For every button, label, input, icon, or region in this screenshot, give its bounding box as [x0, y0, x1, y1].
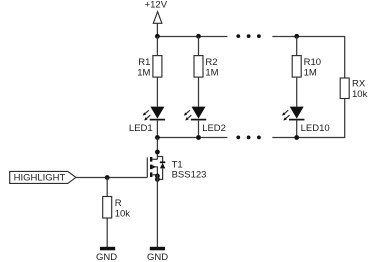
junction highlight node — [105, 175, 110, 180]
junction top rail branch 1 — [155, 34, 160, 39]
wire +12V arrow to top rail — [156, 23, 158, 36]
svg-text:LED10: LED10 — [301, 123, 330, 134]
label RX 10k — [352, 78, 368, 100]
wire top rail right segment — [272, 37, 344, 79]
svg-text:+12V: +12V — [145, 0, 168, 10]
resistor R1 — [153, 56, 162, 78]
svg-text:LED2: LED2 — [202, 123, 226, 134]
wire R to ground — [106, 218, 108, 247]
wire LED10 to bottom rail — [296, 120, 298, 138]
ellipsis bottom rail — [236, 136, 260, 140]
svg-text:RX: RX — [352, 78, 366, 89]
junction bottom rail branch 1 — [155, 135, 160, 140]
wire transistor source to ground — [156, 175, 158, 247]
wire RX to bottom rail — [297, 99, 345, 138]
label R 10k — [115, 198, 131, 219]
wire top rail left segment — [157, 36, 227, 38]
svg-text:GND: GND — [96, 252, 117, 262]
label R2 1M — [205, 57, 218, 78]
wire LED1 to bottom rail — [156, 120, 158, 138]
junction top rail branch 2 — [196, 34, 201, 39]
ground GND right — [147, 247, 168, 262]
resistor RX — [340, 78, 349, 99]
wire R10 to LED10 — [296, 77, 298, 107]
wire highlight node to R — [106, 178, 108, 197]
svg-text:LED1: LED1 — [129, 123, 153, 134]
label T1 BSS123 — [172, 160, 207, 181]
svg-text:1M: 1M — [137, 67, 150, 78]
wire top rail to R1 — [156, 37, 158, 56]
svg-text:R: R — [115, 198, 122, 209]
wire top rail to R2 — [198, 37, 200, 56]
wire bottom rail to transistor drain — [156, 138, 158, 160]
LED LED2 — [184, 107, 206, 121]
wire R2 to LED2 — [198, 77, 200, 107]
svg-text:BSS123: BSS123 — [172, 169, 207, 180]
svg-text:1M: 1M — [205, 67, 218, 78]
ground GND left — [96, 247, 117, 262]
junction source node — [155, 174, 160, 179]
transistor T1 BSS123 n-channel mosfet — [147, 157, 157, 178]
body diode of T1 — [157, 157, 165, 180]
wire LED2 to bottom rail — [198, 120, 200, 138]
resistor R2 — [194, 56, 203, 78]
ellipsis top rail — [236, 34, 260, 38]
resistor R — [103, 197, 112, 219]
junction bottom rail branch 2 — [196, 135, 201, 140]
svg-text:GND: GND — [147, 252, 168, 262]
wire top rail to R10 — [296, 37, 298, 56]
LED LED1 — [143, 107, 165, 121]
signal flag HIGHLIGHT — [10, 171, 76, 183]
svg-text:HIGHLIGHT: HIGHLIGHT — [14, 173, 66, 184]
LED LED10 — [282, 107, 304, 121]
svg-text:10k: 10k — [115, 209, 131, 220]
label R1 1M — [137, 57, 150, 78]
junction bottom rail branch 10 — [294, 135, 299, 140]
label R10 1M — [304, 57, 321, 78]
junction top rail branch 10 — [294, 34, 299, 39]
svg-text:10k: 10k — [352, 89, 368, 100]
wire HIGHLIGHT to gate — [76, 177, 147, 179]
junction drain body-diode node — [155, 150, 160, 155]
power +12V supply symbol — [145, 0, 168, 23]
wire bottom rail left segment — [157, 137, 227, 139]
wire R1 to LED1 — [156, 77, 158, 107]
resistor R10 — [292, 56, 301, 78]
svg-text:1M: 1M — [304, 67, 317, 78]
wire bottom rail right segment — [272, 137, 296, 139]
